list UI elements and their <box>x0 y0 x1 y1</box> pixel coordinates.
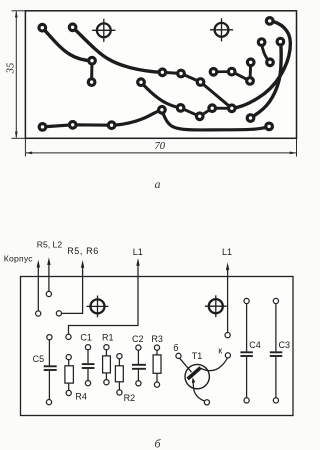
arrowhead L1 first <box>136 258 139 266</box>
hole pads (component side, open circles) <box>36 291 279 405</box>
mounting hole crosshair H1 <box>92 19 115 42</box>
svg-text:C5: C5 <box>33 354 45 364</box>
wire P23-P24 <box>200 108 213 116</box>
svg-text:C4: C4 <box>249 340 261 350</box>
dimension 70 line <box>26 152 296 154</box>
arrowhead L1 second <box>226 262 229 270</box>
dimension 70 arrow right <box>290 152 297 155</box>
pad P4 <box>88 79 95 86</box>
wire P6-P22 <box>141 82 181 108</box>
node T1 emitter hole <box>204 400 209 405</box>
node L1-1 hole <box>66 334 71 339</box>
resistor R2 <box>115 359 123 390</box>
wire P10-P13 <box>232 72 250 81</box>
node T1 base hole <box>176 353 181 358</box>
mounting hole crosshair H4 <box>205 295 227 317</box>
node C4 bottom <box>244 398 249 403</box>
pad P24 <box>209 105 216 112</box>
node C3 bottom <box>273 398 278 403</box>
arrowhead R5,R6 <box>81 260 84 268</box>
svg-text:б: б <box>155 437 162 450</box>
wire P8-P25 <box>201 82 232 108</box>
svg-text:а: а <box>155 177 161 191</box>
capacitor C1 <box>82 350 95 381</box>
mounting hole crosshair H2 <box>210 18 233 41</box>
pad P20 <box>108 122 115 129</box>
node C2 bottom <box>136 381 141 386</box>
wire lead-out Korpus <box>37 266 39 312</box>
pad P6 <box>138 79 145 86</box>
emitter lead to pad e <box>193 381 205 401</box>
node R2 top <box>117 354 122 359</box>
wire inner arc P17-P26 <box>251 42 282 118</box>
wire P24-P25 <box>212 107 232 110</box>
collector lead to pad k <box>201 358 228 371</box>
pad P8 <box>197 79 204 86</box>
svg-text:35: 35 <box>6 63 17 75</box>
board outline (figure a, foil side) <box>25 11 296 139</box>
svg-text:R4: R4 <box>75 391 87 401</box>
wire bottom sweep P21-P27 <box>162 110 269 130</box>
svg-text:R1: R1 <box>102 333 114 343</box>
node C1 top <box>85 345 90 350</box>
dimension 35 line <box>15 12 17 138</box>
svg-text:C2: C2 <box>132 334 144 344</box>
pad P5 <box>159 69 166 76</box>
wire bottom chain P18-P19-P20-P21 <box>43 110 162 127</box>
node C5 top <box>47 335 52 340</box>
pad P12 <box>247 59 254 66</box>
transistor T1 <box>179 358 227 402</box>
node Korpus hole <box>36 311 41 316</box>
svg-text:R5, R6: R5, R6 <box>67 246 99 256</box>
dimension 70 extension line left <box>24 139 26 157</box>
node C5 bottom <box>46 400 51 405</box>
base bar <box>188 368 201 379</box>
node C2 top <box>136 345 141 350</box>
resistor R4 <box>65 360 74 391</box>
svg-text:б: б <box>173 343 178 353</box>
pad P7 <box>178 70 185 77</box>
svg-text:L1: L1 <box>133 247 143 257</box>
mounting hole crosshair H3 <box>87 296 109 318</box>
wire lead-out R5,R6 <box>61 266 82 314</box>
dimension 35 extension tick top <box>12 10 26 12</box>
pad P18 <box>39 124 46 131</box>
wire P1-P3 <box>42 28 92 61</box>
node R5,R6 hole <box>56 311 61 316</box>
dimension 35 arrow down <box>15 132 18 139</box>
pad P14 <box>267 59 274 66</box>
pad P1 <box>39 24 46 31</box>
svg-text:T1: T1 <box>192 351 203 361</box>
dimension 70 arrow left <box>26 152 33 155</box>
wire P5-P7 <box>162 72 181 73</box>
node R2 bottom <box>117 390 122 395</box>
pad P27 <box>266 123 273 130</box>
pad P26 <box>247 115 254 122</box>
dimension 70 extension line right <box>296 139 298 157</box>
svg-text:R2: R2 <box>124 393 136 403</box>
node C1 bottom <box>85 381 90 386</box>
node R1 top <box>104 345 109 350</box>
node R5,L2 hole <box>46 291 51 296</box>
wire P22-P23 <box>181 108 200 116</box>
node R4 top <box>66 355 71 360</box>
node R1 bottom <box>104 380 109 385</box>
svg-text:к: к <box>218 346 222 356</box>
pad P2 <box>69 24 76 31</box>
node L1-2 hole <box>225 333 230 338</box>
svg-text:L1: L1 <box>222 247 232 257</box>
pad P25 <box>229 105 236 112</box>
node C3 top <box>273 298 278 303</box>
base lead to pad b <box>179 358 191 372</box>
board outline (figure b) <box>21 277 294 416</box>
wire lead-out L1 first <box>69 264 139 335</box>
wire lead-out R5,L2 <box>48 263 50 292</box>
wire lead-out L1 second <box>227 268 229 333</box>
dimension 35 arrow up <box>15 11 18 18</box>
svg-text:C1: C1 <box>80 333 92 343</box>
resistor R1 <box>103 350 111 380</box>
pad P21 <box>159 107 166 114</box>
capacitor C3 <box>270 304 283 398</box>
wire P3-P4 <box>90 61 93 82</box>
pad P15 <box>266 18 273 25</box>
emitter arrowhead <box>192 377 196 383</box>
wire P2-P5 <box>73 27 163 72</box>
wire P7-P8 <box>181 74 201 83</box>
node T1 collector hole <box>225 353 230 358</box>
traces group <box>42 21 290 130</box>
node R3 top <box>154 345 159 350</box>
capacitor C2 <box>132 350 146 381</box>
node R4 bottom <box>66 390 71 395</box>
pad P13 <box>247 78 254 85</box>
pad P16 <box>258 39 265 46</box>
wire P12-P13 <box>249 62 253 81</box>
wire P16-P14 <box>262 42 270 62</box>
node R3 bottom <box>154 382 159 387</box>
pads group (foil side) <box>39 18 284 131</box>
svg-text:R3: R3 <box>151 334 163 344</box>
dimension 35 extension tick bottom <box>12 137 26 139</box>
pad P23 <box>196 113 203 120</box>
capacitor C4 <box>240 304 253 398</box>
svg-text:C3: C3 <box>279 340 291 350</box>
pad P3 <box>89 57 96 64</box>
pad P9 <box>210 69 217 76</box>
arrowhead Korpus <box>37 260 40 268</box>
pad P10 <box>228 68 235 75</box>
pad P22 <box>177 105 184 112</box>
wire outer arc P15-P25 <box>232 21 291 108</box>
svg-text:70: 70 <box>155 141 166 152</box>
wire P9-P10 <box>214 70 232 73</box>
pad P17 <box>277 38 284 45</box>
capacitor C5 <box>44 340 57 400</box>
arrowhead R5,L2 <box>47 257 50 265</box>
node C4 top <box>244 298 249 303</box>
svg-text:Корпус: Корпус <box>4 254 33 264</box>
svg-text:R5, L2: R5, L2 <box>37 240 63 250</box>
pad P19 <box>69 122 76 129</box>
resistor R3 <box>153 350 161 382</box>
